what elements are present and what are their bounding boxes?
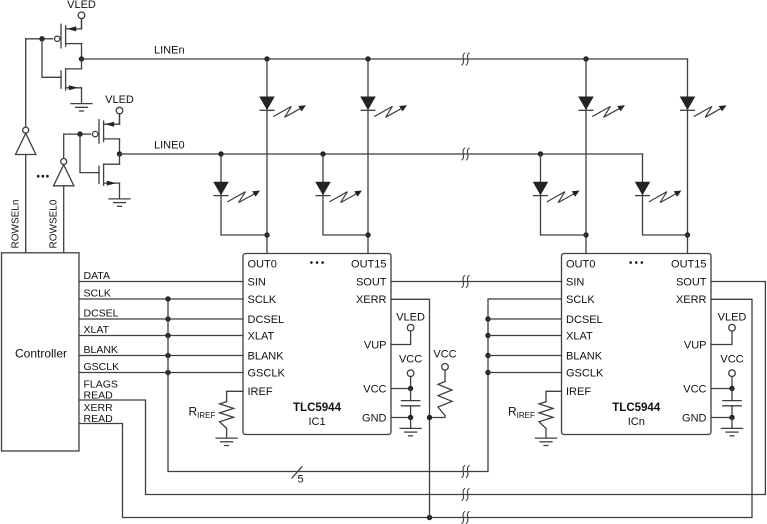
- svg-text:SOUT: SOUT: [356, 276, 387, 288]
- svg-text:BLANK: BLANK: [248, 350, 285, 362]
- svg-text:SCLK: SCLK: [84, 288, 111, 300]
- svg-text:VUP: VUP: [684, 339, 707, 351]
- svg-text:Controller: Controller: [15, 347, 67, 361]
- svg-text:VCC: VCC: [399, 354, 422, 366]
- svg-text:DCSEL: DCSEL: [248, 314, 285, 326]
- svg-text:SIN: SIN: [248, 276, 266, 288]
- svg-text:XLAT: XLAT: [248, 330, 275, 342]
- svg-text:IREF: IREF: [566, 386, 591, 398]
- svg-text:GND: GND: [682, 412, 707, 424]
- svg-text:DATA: DATA: [84, 270, 110, 282]
- svg-text:XERR: XERR: [676, 294, 707, 306]
- svg-text:GND: GND: [362, 412, 387, 424]
- svg-text:SCLK: SCLK: [248, 294, 277, 306]
- svg-text:OUT0: OUT0: [566, 258, 595, 270]
- svg-text:SOUT: SOUT: [676, 276, 707, 288]
- svg-text:XLAT: XLAT: [566, 330, 593, 342]
- svg-text:OUT15: OUT15: [351, 258, 386, 270]
- svg-text:IC1: IC1: [308, 416, 325, 428]
- svg-text:XLAT: XLAT: [84, 324, 110, 336]
- svg-text:VUP: VUP: [364, 339, 387, 351]
- svg-text:DCSEL: DCSEL: [566, 314, 603, 326]
- svg-text:LINE0: LINE0: [154, 140, 185, 152]
- svg-text:ICn: ICn: [628, 416, 645, 428]
- svg-text:OUT15: OUT15: [671, 258, 706, 270]
- svg-text:ROWSEL0: ROWSEL0: [49, 199, 60, 248]
- svg-text:VCC: VCC: [363, 383, 386, 395]
- svg-text:GSCLK: GSCLK: [248, 367, 286, 379]
- svg-text:DCSEL: DCSEL: [84, 308, 119, 320]
- svg-text:GSCLK: GSCLK: [84, 361, 120, 373]
- svg-text:ROWSELn: ROWSELn: [11, 200, 22, 249]
- svg-text:IREF: IREF: [248, 386, 273, 398]
- svg-text:VLED: VLED: [105, 94, 134, 106]
- svg-text:TLC5944: TLC5944: [612, 402, 661, 414]
- svg-text:OUT0: OUT0: [248, 258, 277, 270]
- svg-text:GSCLK: GSCLK: [566, 367, 604, 379]
- svg-text:VCC: VCC: [683, 383, 706, 395]
- svg-text:VCC: VCC: [433, 349, 456, 361]
- svg-text:5: 5: [297, 474, 303, 486]
- svg-text:BLANK: BLANK: [84, 344, 118, 356]
- svg-text:BLANK: BLANK: [566, 350, 603, 362]
- svg-text:XERR: XERR: [356, 294, 387, 306]
- svg-text:VCC: VCC: [720, 354, 743, 366]
- svg-text:TLC5944: TLC5944: [293, 402, 342, 414]
- svg-text:VLED: VLED: [67, 0, 96, 11]
- svg-text:VLED: VLED: [718, 311, 747, 323]
- svg-text:LINEn: LINEn: [154, 45, 185, 57]
- svg-text:VLED: VLED: [396, 311, 425, 323]
- svg-text:SIN: SIN: [566, 276, 584, 288]
- svg-text:SCLK: SCLK: [566, 294, 595, 306]
